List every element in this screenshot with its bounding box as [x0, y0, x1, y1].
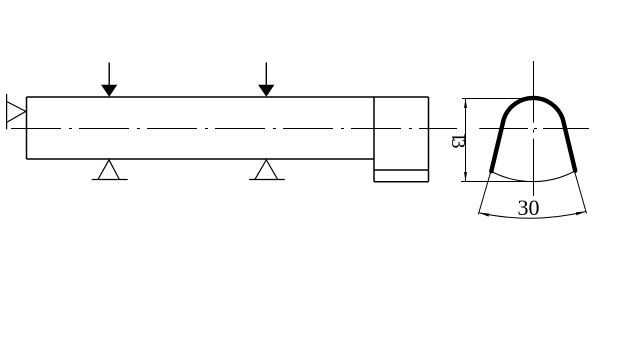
- dim 31 line: [461, 99, 534, 182]
- support A: [92, 160, 128, 180]
- section horizontal centerline: [479, 128, 589, 130]
- dim 30 extension lines: [478, 172, 586, 215]
- section dome profile: [491, 98, 575, 171]
- support B: [249, 160, 285, 180]
- load arrow P1: [101, 63, 117, 97]
- dim 30 arrows: [479, 213, 489, 217]
- load arrow P2: [258, 63, 274, 97]
- centerline beam: [11, 128, 457, 130]
- section vertical centerline: [533, 61, 535, 196]
- svg-text:1: 1: [448, 133, 470, 143]
- beam outline: [27, 97, 429, 159]
- dim 30 arc line: [479, 212, 586, 219]
- left support: [7, 94, 26, 129]
- dim 31 arrows: [464, 99, 467, 109]
- section bottom arc: [492, 171, 576, 182]
- right end block: [374, 97, 429, 182]
- svg-text:30: 30: [518, 195, 540, 220]
